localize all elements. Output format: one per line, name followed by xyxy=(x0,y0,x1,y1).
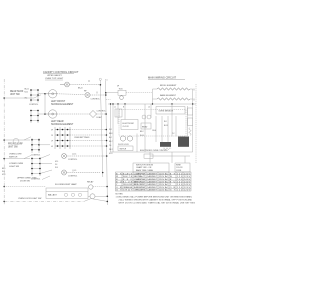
svg-text:BLACK: BLACK xyxy=(123,172,133,175)
svg-text:1 DISCONNECT ALL POWER BEFORE: 1 DISCONNECT ALL POWER BEFORE SERVICING … xyxy=(116,196,193,199)
svg-text:CONTROL: CONTROL xyxy=(29,104,38,106)
svg-text:Y-2: Y-2 xyxy=(172,133,174,135)
wire rail to light switch xyxy=(4,158,30,160)
svg-text:( ): ( ) xyxy=(193,99,195,101)
svg-text:Y-6: Y-6 xyxy=(109,145,111,147)
svg-text:YELLOW: YELLOW xyxy=(123,184,133,186)
svg-text:LOWER OVEN: LOWER OVEN xyxy=(9,163,24,165)
svg-text:RELAY: RELAY xyxy=(87,180,94,183)
svg-text:CONTROL: CONTROL xyxy=(31,178,40,180)
svg-text:120V AC: 120V AC xyxy=(159,175,169,178)
svg-text:L2 MAIN PWR: L2 MAIN PWR xyxy=(134,178,146,181)
control light row 4 xyxy=(62,170,101,177)
svg-text:BU-7: BU-7 xyxy=(109,141,113,143)
element left vertical xyxy=(152,89,154,104)
svg-text:SWITCH: SWITCH xyxy=(120,149,127,151)
wires box to table xyxy=(150,152,185,163)
terminal marks xyxy=(88,81,90,83)
svg-text:FLUORESCENT LAMP: FLUORESCENT LAMP xyxy=(55,183,77,186)
rail junction dots xyxy=(100,84,109,202)
svg-text:N: N xyxy=(123,107,125,109)
svg-text:BALLAST: BALLAST xyxy=(48,193,58,196)
terminal marks broil/bake xyxy=(193,89,195,101)
svg-text:ELECTRONIC OVEN CONTROL: ELECTRONIC OVEN CONTROL xyxy=(140,150,168,152)
svg-text:CABINET: CABINET xyxy=(147,183,158,186)
wire label column xyxy=(109,129,113,155)
wire rail to rear switch xyxy=(4,97,34,99)
bake element xyxy=(153,94,193,100)
svg-text:CHART OFF - ON: CHART OFF - ON xyxy=(136,166,152,169)
svg-text:SURFACE ELEMENT: SURFACE ELEMENT xyxy=(51,103,74,106)
svg-text:240: 240 xyxy=(177,173,183,175)
svg-text:240V: 240V xyxy=(184,182,191,184)
svg-text:OVEN DOOR LIGHT SW: OVEN DOOR LIGHT SW xyxy=(18,198,41,200)
svg-text:UNIT SW: UNIT SW xyxy=(10,94,20,96)
svg-text:120V AC: 120V AC xyxy=(159,186,169,189)
wire relay links xyxy=(93,186,107,188)
title CANOPY CONTROL CIRCUIT xyxy=(43,70,79,74)
svg-text:CABINET: CABINET xyxy=(147,181,158,184)
svg-text:OVEN LIGHTS: OVEN LIGHTS xyxy=(134,190,146,192)
short dash rail to box xyxy=(106,99,111,101)
table header box 1 xyxy=(133,163,169,172)
svg-text:SURF UNIT SW: SURF UNIT SW xyxy=(134,187,146,189)
svg-text:120V AC: 120V AC xyxy=(159,189,169,192)
svg-text:GY-3: GY-3 xyxy=(109,153,113,155)
wire rail to fluorescent xyxy=(4,186,46,188)
label electronic oven control xyxy=(140,150,168,152)
svg-text:R-10: R-10 xyxy=(25,92,28,94)
svg-text:OVEN SETTINGS: OVEN SETTINGS xyxy=(74,137,90,139)
right column small box 1 xyxy=(188,108,193,115)
svg-text:240V: 240V xyxy=(184,179,191,181)
svg-text:R: R xyxy=(170,179,172,181)
element right vertical xyxy=(192,89,194,104)
table row text xyxy=(116,172,191,191)
svg-text:GY-1: GY-1 xyxy=(55,161,59,163)
TOD component xyxy=(106,86,153,100)
svg-text:R-4: R-4 xyxy=(109,137,112,139)
right rail A xyxy=(100,80,103,177)
svg-text:CONTROL: CONTROL xyxy=(91,98,100,100)
contacts mid-left bank xyxy=(31,138,50,157)
table header box 2 xyxy=(175,163,190,172)
label FRONT SURF UNIT SW xyxy=(8,143,23,148)
svg-text:LEFT REAR: LEFT REAR xyxy=(51,120,64,123)
oven control assembly dashed box xyxy=(119,110,186,137)
control light RF xyxy=(84,91,106,101)
wire bottom door switch xyxy=(4,200,84,202)
svg-text:BROIL ELEMENT: BROIL ELEMENT xyxy=(160,85,177,87)
svg-text:CONTROL: CONTROL xyxy=(68,175,77,177)
switch bank front contacts xyxy=(30,110,46,124)
svg-text:L1: L1 xyxy=(114,107,116,109)
svg-text:R: R xyxy=(116,179,118,181)
svg-text:( ) L1: ( ) L1 xyxy=(72,170,76,172)
svg-text:BAKE CIRCUIT: BAKE CIRCUIT xyxy=(134,181,146,184)
door lock motor circles xyxy=(118,136,133,146)
svg-text:CABINET: CABINET xyxy=(147,175,158,178)
svg-text:L2: L2 xyxy=(148,107,150,109)
clock dashed box xyxy=(121,104,138,130)
svg-text:GY-8: GY-8 xyxy=(2,174,6,176)
switch arm rear surf xyxy=(34,95,41,98)
label OVEN TOP LIGHT xyxy=(45,78,64,80)
svg-text:BROIL CIRCUIT: BROIL CIRCUIT xyxy=(134,184,146,186)
svg-text:OR: OR xyxy=(170,187,176,189)
element left front circle xyxy=(45,90,85,98)
svg-text:CONTROL: CONTROL xyxy=(68,159,77,161)
svg-text:120V AC: 120V AC xyxy=(159,178,169,181)
terminal block dark 2 xyxy=(178,137,189,147)
svg-text:( ): ( ) xyxy=(88,81,90,83)
svg-text:CONTROL: CONTROL xyxy=(31,155,40,157)
control light diamond xyxy=(89,110,106,119)
svg-text:CABINET: CABINET xyxy=(147,189,158,192)
svg-text:Y: Y xyxy=(170,184,172,186)
svg-text:120: 120 xyxy=(177,187,183,189)
svg-text:( ) L1: ( ) L1 xyxy=(72,153,76,155)
connector box below xyxy=(144,154,153,158)
switch bank rear contacts xyxy=(29,89,46,106)
phase labels xyxy=(114,107,150,109)
connector pins block xyxy=(115,104,122,124)
svg-text:L1 MAIN PWR: L1 MAIN PWR xyxy=(134,172,146,175)
label LEFT FRONT SURFACE ELEMENT xyxy=(51,101,74,106)
switch arm lower-left xyxy=(42,176,50,180)
svg-text:OR-2: OR-2 xyxy=(109,149,113,151)
right rail B xyxy=(106,81,108,205)
svg-text:RELAY: RELAY xyxy=(142,125,148,128)
svg-text:BK-8: BK-8 xyxy=(109,133,113,135)
title MAIN WIRING CIRCUIT xyxy=(148,76,177,80)
svg-text:BK-2: BK-2 xyxy=(140,131,144,133)
svg-text:REAR SURF: REAR SURF xyxy=(10,90,24,93)
svg-text:ORANGE: ORANGE xyxy=(123,186,133,189)
svg-text:W: W xyxy=(116,176,119,178)
wire rail to front switch xyxy=(4,139,30,141)
svg-text:W-9: W-9 xyxy=(55,167,58,169)
svg-text:120V AC: 120V AC xyxy=(159,172,169,175)
subtitle upper canopy xyxy=(47,74,63,77)
lamp oven top light xyxy=(60,82,100,90)
svg-text:BK-12: BK-12 xyxy=(25,89,29,91)
svg-text:120: 120 xyxy=(177,190,183,192)
wire labels mid rows xyxy=(2,161,59,176)
terminal block dark 1 xyxy=(160,142,171,147)
svg-text:ELECTRONIC: ELECTRONIC xyxy=(123,123,135,125)
label FLUORESCENT LAMP xyxy=(55,183,77,186)
relay box inner xyxy=(141,123,151,129)
svg-text:GRAY: GRAY xyxy=(123,189,133,192)
svg-text:UNIT SW: UNIT SW xyxy=(8,146,18,148)
svg-text:GY: GY xyxy=(170,190,176,192)
fluorescent lamp box xyxy=(46,188,88,199)
svg-text:4F: 4F xyxy=(51,146,53,148)
main box left edges xyxy=(110,104,112,152)
svg-text:240: 240 xyxy=(177,179,183,181)
svg-text:UPPER CANOPY: UPPER CANOPY xyxy=(47,74,63,77)
svg-text:LIGHT SW: LIGHT SW xyxy=(9,166,19,168)
svg-text:Y: Y xyxy=(116,184,118,186)
svg-text:COLOR: COLOR xyxy=(176,167,183,169)
svg-text:240V: 240V xyxy=(184,173,191,175)
svg-text:1F: 1F xyxy=(51,140,53,142)
svg-text:V-3: V-3 xyxy=(55,164,57,166)
inner wires verticals xyxy=(137,104,176,152)
svg-text:BAKE ELEMENT: BAKE ELEMENT xyxy=(160,94,177,97)
svg-text:NOTES:: NOTES: xyxy=(116,194,124,196)
svg-text:DOOR SW: DOOR SW xyxy=(20,181,30,183)
svg-text:OVEN SENSOR: OVEN SENSOR xyxy=(159,111,174,113)
wire labels inside box xyxy=(140,121,174,137)
notes under table xyxy=(116,194,196,205)
svg-text:SURFACE ELEMENT: SURFACE ELEMENT xyxy=(51,123,74,126)
small zigzag bottom xyxy=(163,148,171,150)
svg-text:120V: 120V xyxy=(184,176,191,178)
svg-text:120V AC: 120V AC xyxy=(159,183,169,186)
svg-text:CANOPY CONTROL CIRCUIT: CANOPY CONTROL CIRCUIT xyxy=(43,70,79,74)
svg-text:240: 240 xyxy=(177,182,183,184)
terminal ticks rail B xyxy=(105,79,107,81)
svg-text:240: 240 xyxy=(177,184,183,186)
svg-text:W-14: W-14 xyxy=(140,135,144,137)
svg-text:BK-5: BK-5 xyxy=(2,168,6,170)
svg-text:CABINET: CABINET xyxy=(147,178,158,181)
right rails xyxy=(187,106,189,136)
top edge junction dots xyxy=(110,103,194,104)
svg-text:120V AC: 120V AC xyxy=(159,181,169,184)
oven sensor box xyxy=(156,107,185,115)
svg-text:GY: GY xyxy=(116,190,122,192)
svg-text:RED: RED xyxy=(123,179,133,181)
svg-text:( ): ( ) xyxy=(193,89,195,91)
svg-text:W-1: W-1 xyxy=(109,129,112,131)
svg-text:CLOCK: CLOCK xyxy=(123,126,130,128)
svg-text:MAIN WIRING CIRCUIT: MAIN WIRING CIRCUIT xyxy=(148,76,177,80)
svg-text:SWITCH: SWITCH xyxy=(9,156,18,158)
svg-text:BU: BU xyxy=(116,182,122,184)
svg-text:120: 120 xyxy=(177,176,183,178)
pilot circle front switch xyxy=(13,138,19,144)
main box bottom edge xyxy=(111,151,193,153)
right column small box 2 xyxy=(188,118,193,126)
svg-text:CABINET: CABINET xyxy=(147,186,158,189)
svg-text:CABINET: CABINET xyxy=(147,172,158,175)
label RELAY xyxy=(87,180,94,183)
svg-text:BAKE TIME CLEAN: BAKE TIME CLEAN xyxy=(136,169,154,172)
switch arm front surf xyxy=(24,137,31,140)
svg-text:BK: BK xyxy=(170,173,176,175)
svg-text:2F: 2F xyxy=(51,135,53,137)
svg-text:OR-6: OR-6 xyxy=(152,130,156,132)
svg-text:LEFT FRONT: LEFT FRONT xyxy=(51,101,66,103)
wire labels near rear switch xyxy=(25,89,29,100)
svg-text:BLUE: BLUE xyxy=(123,182,133,184)
vertical zigzag resistor xyxy=(189,128,191,136)
element left rear circle xyxy=(45,110,90,118)
svg-text:WITH DOOR CLOSED AND TIMER DIA: WITH DOOR CLOSED AND TIMER DIAL SET AT N… xyxy=(119,202,196,205)
svg-text:120V: 120V xyxy=(184,190,191,192)
label LEFT REAR SURFACE ELEMENT xyxy=(51,120,74,126)
svg-text:( ): ( ) xyxy=(96,92,98,94)
terminal circle rail A xyxy=(99,78,101,80)
left rail junction dots xyxy=(3,97,5,202)
svg-text:BK-24: BK-24 xyxy=(78,88,83,90)
wire color table grid xyxy=(116,172,192,191)
svg-text:5F: 5F xyxy=(117,86,120,88)
svg-text:LIGHT: LIGHT xyxy=(97,117,103,119)
switch arm door light xyxy=(84,199,91,202)
svg-text:OR: OR xyxy=(116,187,122,189)
svg-text:2 ALL WIRING SHOWN WITH CABIN: 2 ALL WIRING SHOWN WITH CABINET IN NORMA… xyxy=(119,199,193,202)
svg-text:OVEN LIGHT: OVEN LIGHT xyxy=(9,154,22,156)
relay contact xyxy=(90,194,95,199)
svg-text:BU-3: BU-3 xyxy=(164,125,168,127)
left rail dash-dot xyxy=(3,79,5,205)
broil element xyxy=(153,85,193,90)
svg-text:120V: 120V xyxy=(184,187,191,189)
svg-text:R-8: R-8 xyxy=(164,121,167,123)
bus wire between element rows xyxy=(44,94,46,114)
relay contact circles xyxy=(142,115,146,119)
svg-text:DOOR LOCK: DOOR LOCK xyxy=(118,144,130,146)
svg-text:W: W xyxy=(170,176,173,178)
label REAR SURF UNIT SW xyxy=(10,90,24,96)
main box top edge xyxy=(108,103,196,105)
svg-text:BK: BK xyxy=(116,173,122,175)
relay coil xyxy=(89,185,93,189)
svg-text:W-2: W-2 xyxy=(2,171,5,173)
contacts lower-left bank xyxy=(31,155,52,177)
svg-text:3F: 3F xyxy=(51,129,53,131)
control light row 3 xyxy=(62,153,107,160)
door lock switch box xyxy=(118,146,133,151)
oven selector switch bank xyxy=(51,127,107,149)
svg-text:240V: 240V xyxy=(184,184,191,186)
labels lower-left block xyxy=(9,154,37,183)
svg-text:CODE: CODE xyxy=(176,170,182,172)
svg-text:NEUTRAL CT: NEUTRAL CT xyxy=(134,175,146,178)
svg-text:BU: BU xyxy=(170,182,176,184)
second bottom wire xyxy=(150,155,190,157)
svg-text:WHITE: WHITE xyxy=(123,176,133,178)
